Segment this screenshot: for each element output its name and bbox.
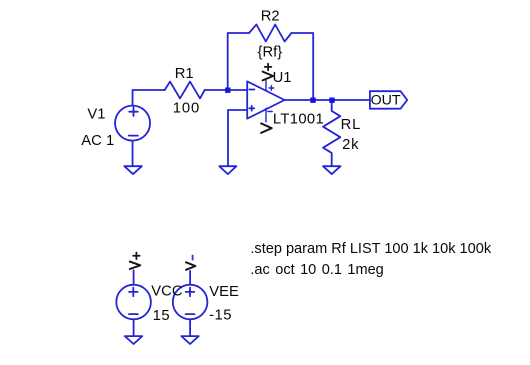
svg-text:VCC: VCC xyxy=(151,284,183,300)
wire R2 to output node xyxy=(292,33,314,100)
resistor R2 xyxy=(249,25,292,42)
ground under V1 xyxy=(124,166,142,174)
svg-text:U1: U1 xyxy=(273,70,292,86)
svg-text:-15: -15 xyxy=(209,308,232,324)
junction node output/feedback xyxy=(310,98,315,103)
resistor RL xyxy=(323,100,340,166)
wire op-amp output xyxy=(285,99,370,101)
svg-text:LT1001: LT1001 xyxy=(273,112,324,128)
ground under VCC xyxy=(125,336,143,344)
svg-text:V1: V1 xyxy=(87,107,105,123)
voltage source V1 xyxy=(115,106,150,141)
op-amp input markers xyxy=(249,90,254,111)
wire V1 bottom to ground xyxy=(132,141,134,167)
wire VCC bottom to ground xyxy=(133,319,135,336)
wire VCC top to flag xyxy=(133,270,135,284)
voltage source VEE xyxy=(173,285,208,320)
wire R1 to op-amp inverting input xyxy=(205,89,248,91)
op-amp U1 triangle xyxy=(247,81,284,118)
port OUT xyxy=(370,91,407,109)
svg-text:.ac oct 10 0.1 1meg: .ac oct 10 0.1 1meg xyxy=(250,262,383,278)
net flag + on VCC xyxy=(130,262,141,269)
svg-text:VEE: VEE xyxy=(209,284,239,300)
op-amp V+ pin xyxy=(265,81,267,91)
svg-text:R2: R2 xyxy=(261,9,280,25)
wire VEE top to flag xyxy=(189,271,191,285)
svg-text:{Rf}: {Rf} xyxy=(258,44,283,60)
voltage source VCC xyxy=(116,285,151,320)
svg-text:OUT: OUT xyxy=(371,92,401,108)
wire op-amp + input to ground xyxy=(228,110,247,166)
net flag + on op-amp V+ xyxy=(263,72,274,81)
wire V1 top to R1 xyxy=(133,90,165,106)
ground under op-amp xyxy=(219,166,236,174)
svg-text:RL: RL xyxy=(341,117,362,133)
resistor R1 xyxy=(165,82,205,99)
svg-text:.step param Rf LIST 100 1k 10k: .step param Rf LIST 100 1k 10k 100k xyxy=(250,241,491,257)
op-amp V- pin xyxy=(265,108,267,122)
svg-text:100: 100 xyxy=(173,101,200,117)
ground under RL xyxy=(323,166,341,174)
junction node output/RL xyxy=(329,98,334,103)
svg-text:R1: R1 xyxy=(175,66,194,82)
svg-text:2k: 2k xyxy=(342,137,359,153)
wire feedback up from node xyxy=(228,33,249,90)
wire VEE bottom to ground xyxy=(189,319,191,336)
junction node R1/feedback xyxy=(225,88,230,93)
ground under VEE xyxy=(181,336,199,344)
svg-text:AC 1: AC 1 xyxy=(81,133,114,149)
svg-text:15: 15 xyxy=(153,308,170,324)
net flag - on VEE xyxy=(186,262,195,270)
net flag - on op-amp V- xyxy=(261,123,272,132)
